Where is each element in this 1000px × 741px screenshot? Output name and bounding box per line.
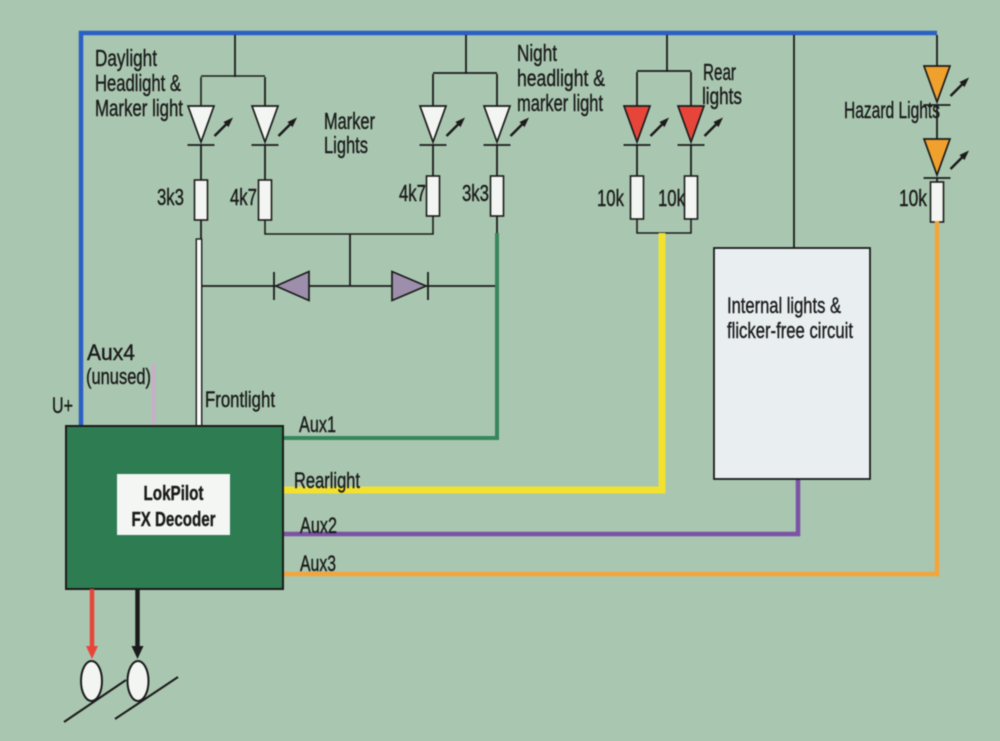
wire Aux1 (green)	[283, 233, 497, 438]
LED night headlight (white)	[420, 106, 466, 145]
wire track pickup red arrow	[86, 589, 98, 659]
LED rear light right (red)	[678, 106, 724, 145]
wire feed to hazard LEDs	[936, 35, 938, 66]
svg-text:LokPilot: LokPilot	[144, 483, 204, 505]
svg-text:3k3: 3k3	[157, 184, 184, 210]
svg-text:Frontlight: Frontlight	[205, 387, 275, 412]
rail left	[64, 680, 126, 722]
diode D2 (points right)	[392, 272, 428, 301]
wire Rearlight (yellow)	[283, 233, 662, 490]
LED hazard upper (amber)	[924, 66, 970, 105]
wheel right	[128, 661, 149, 701]
wire LED3 to resistor 4k7	[432, 145, 434, 176]
wire diode row	[201, 285, 498, 287]
svg-text:marker light: marker light	[517, 90, 603, 116]
svg-text:Rearlight: Rearlight	[294, 468, 360, 493]
svg-text:10k: 10k	[597, 185, 624, 211]
svg-text:Aux1: Aux1	[299, 412, 336, 437]
wire LED5 to resistor 10k	[636, 145, 638, 176]
svg-text:(unused): (unused)	[86, 364, 151, 389]
svg-text:Aux4: Aux4	[87, 340, 135, 365]
wire frontlight white lead	[196, 239, 201, 427]
svg-text:U+: U+	[52, 393, 73, 418]
svg-text:4k7: 4k7	[230, 184, 257, 210]
svg-text:lights: lights	[702, 83, 742, 109]
resistor 3k3 (night marker)	[491, 176, 504, 216]
resistor 10k (rear left)	[631, 176, 644, 219]
svg-text:Marker light: Marker light	[95, 95, 183, 121]
wire 4k7 bottoms joining bar	[265, 216, 433, 234]
wire Aux3 (orange)	[283, 221, 937, 574]
wire U+ blue supply bus	[81, 33, 937, 427]
wire night branch	[432, 74, 434, 106]
LED night marker (white)	[484, 106, 530, 145]
label internal lights & flicker-free circuit	[727, 293, 853, 343]
svg-text:10k: 10k	[899, 185, 927, 211]
resistor 4k7 (daylight marker)	[259, 180, 272, 220]
wire rear resistors joining bar	[637, 219, 691, 233]
wire daylight branch	[200, 77, 202, 106]
svg-text:3k3: 3k3	[462, 180, 489, 206]
svg-text:10k: 10k	[658, 185, 685, 211]
svg-text:Hazard Lights: Hazard Lights	[844, 97, 940, 123]
wire LED6 to resistor 10k	[690, 145, 692, 176]
label Night headlight & marker light	[517, 40, 605, 116]
svg-text:Aux2: Aux2	[300, 513, 337, 538]
svg-text:Daylight: Daylight	[95, 45, 157, 71]
LED rear light left (red)	[624, 106, 670, 145]
wheel left	[81, 661, 102, 701]
LED daylight marker (white)	[252, 106, 298, 145]
wire between hazard LEDs	[936, 105, 938, 139]
LED hazard lower (amber)	[924, 139, 970, 178]
wire hazard LED to resistor 10k	[936, 178, 938, 182]
svg-text:Internal lights &: Internal lights &	[727, 293, 841, 318]
svg-text:flicker-free circuit: flicker-free circuit	[727, 318, 853, 343]
diode D1 (points left)	[274, 272, 309, 301]
label Aux4 (unused)	[86, 340, 151, 389]
label LokPilot FX Decoder text	[132, 483, 216, 531]
wire feed to night LED group	[465, 35, 467, 74]
svg-text:Aux3: Aux3	[300, 551, 336, 576]
svg-text:Headlight &: Headlight &	[95, 70, 181, 96]
wire LED2 to resistor 4k7	[264, 145, 266, 180]
resistor 3k3 (daylight headlight)	[195, 180, 208, 220]
wire centre drop to diode pair	[349, 234, 351, 286]
wire feed to daylight LED group	[234, 35, 236, 77]
label Marker Lights	[324, 108, 375, 158]
wire feed to rear LED group	[666, 35, 668, 72]
svg-text:headlight &: headlight &	[517, 65, 605, 91]
wire feed to internal lights box	[793, 35, 795, 248]
wire 3k3 to frontlight junction	[200, 220, 202, 240]
box internal lights & flicker-free circuit	[714, 248, 870, 479]
svg-text:Lights: Lights	[324, 132, 368, 158]
svg-text:FX Decoder: FX Decoder	[132, 509, 216, 531]
svg-text:Rear: Rear	[703, 59, 736, 85]
label Rear lights	[702, 59, 742, 109]
wire LED4 to resistor 3k3	[496, 145, 498, 176]
svg-text:4k7: 4k7	[399, 180, 426, 206]
resistor 4k7 (night headlight)	[427, 176, 440, 216]
wire Aux2 (purple)	[283, 479, 798, 534]
wire track pickup black arrow	[132, 589, 144, 659]
box LokPilot FX Decoder U1	[66, 426, 283, 589]
svg-text:Marker: Marker	[324, 108, 375, 134]
resistor 10k (rear right)	[685, 176, 698, 219]
rail right	[115, 677, 178, 719]
wire LED1 to resistor 3k3	[200, 145, 202, 180]
LED daylight headlight (white)	[188, 106, 234, 145]
wire 3k3 to Aux1 green lead	[496, 216, 498, 234]
label Daylight Headlight & Marker light	[95, 45, 183, 121]
resistor 10k (hazard)	[931, 182, 944, 222]
svg-text:Night: Night	[517, 40, 557, 66]
wire rear branch	[636, 72, 638, 106]
label plate LokPilot FX Decoder	[117, 474, 230, 535]
wire Aux4 (pink, unused)	[152, 364, 156, 427]
